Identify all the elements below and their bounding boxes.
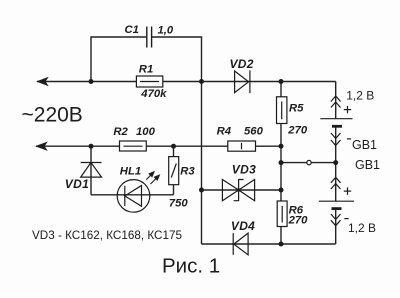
battery GB1 cell 1: positive plate	[320, 118, 352, 120]
arrow: mains bottom left	[36, 142, 47, 150]
wire: capacitor branch top y=37	[91, 37, 147, 82]
wire: top mains row y=81.5	[37, 81, 336, 83]
node A: top-left junction	[89, 79, 94, 84]
resistor R6	[277, 201, 287, 227]
wire: R3 stub	[173, 146, 175, 156]
node E: R3 top junction	[171, 144, 176, 149]
wire	[173, 185, 175, 195]
svg-text:VD1: VD1	[65, 177, 89, 191]
resistor R3	[169, 157, 179, 185]
diode VD4	[233, 233, 248, 255]
wire: battery mid-tap row y=162.6	[281, 162, 336, 164]
svg-text:R2: R2	[113, 126, 128, 138]
battery GB1 cell 2: positive plate	[319, 200, 354, 202]
label + (cell 1)	[344, 106, 351, 113]
resistor R2	[120, 141, 147, 151]
node I: VD3 left junction	[199, 188, 204, 193]
arrow: mains top left	[37, 77, 48, 85]
svg-text:R3: R3	[180, 166, 195, 178]
svg-text:C1: C1	[125, 24, 139, 36]
node J: VD3 right junction	[279, 188, 284, 193]
wire: second mains row y=146.2	[36, 145, 281, 147]
svg-text:1,2 В: 1,2 В	[346, 88, 374, 102]
wire: vertical x=201.5 from top row to bottom row	[201, 82, 203, 245]
wire: bottom row y=244	[202, 243, 336, 245]
node F: R4 right junction	[279, 144, 284, 149]
battery GB1 cell 1: contact chevrons up	[331, 96, 341, 108]
label + (cell 2)	[344, 187, 351, 194]
svg-text:HL1: HL1	[120, 166, 141, 178]
node H: mid-tap right junction	[333, 160, 338, 165]
svg-text:GB1: GB1	[352, 138, 377, 152]
resistor R4	[228, 141, 256, 151]
svg-text:VD3: VD3	[232, 163, 256, 177]
svg-text:R4: R4	[217, 126, 232, 138]
svg-text:560: 560	[244, 126, 264, 138]
battery GB1 cell 2: contact chevrons up	[331, 177, 341, 189]
svg-text:R1: R1	[139, 63, 153, 75]
wire	[335, 209, 337, 244]
svg-text:R5: R5	[289, 102, 304, 114]
label - (cell 1)	[347, 138, 351, 140]
resistor R5	[277, 97, 287, 124]
svg-text:750: 750	[169, 197, 189, 209]
wire: vertical x=281 (R5/R6 column)	[280, 82, 282, 97]
wire: VD1 branch x=91	[90, 146, 92, 195]
svg-text:270: 270	[288, 214, 309, 226]
wire: battery column x=335.7	[335, 82, 337, 119]
arrow: HL1 light arrow 1	[146, 172, 154, 180]
node G: mid-tap left junction	[279, 160, 284, 165]
wire	[280, 124, 282, 202]
svg-text:470k: 470k	[140, 88, 167, 100]
node: mid-tap connector circle	[307, 160, 311, 164]
node K: bottom junction	[279, 242, 284, 247]
battery GB1 cell 2: negative plate	[332, 207, 342, 210]
svg-text:1,2 В: 1,2 В	[348, 221, 376, 235]
svg-text:270: 270	[287, 125, 308, 137]
resistor R1	[136, 76, 162, 87]
battery GB1 cell 2: contact chevrons down	[331, 214, 341, 226]
LED HL1	[117, 180, 150, 213]
node: VD3 centre dot	[237, 188, 241, 192]
node C: R5 top junction	[279, 79, 284, 84]
wire	[280, 227, 282, 245]
wire: VD3 row y=190	[202, 189, 282, 191]
svg-text:Рис. 1: Рис. 1	[162, 255, 220, 278]
battery GB1 cell 1: contact chevrons down	[331, 133, 341, 146]
label - (cell 2)	[344, 218, 348, 220]
svg-text:VD4: VD4	[231, 219, 255, 233]
diode VD1	[81, 163, 102, 178]
zener VD3 (bidirectional)	[222, 180, 254, 201]
svg-text:VD2: VD2	[230, 57, 254, 71]
diode VD2	[235, 70, 250, 93]
svg-text:VD3 - КС162, КС168, КС175: VD3 - КС162, КС168, КС175	[32, 229, 182, 242]
arrow: HL1 light arrow 2	[150, 175, 159, 184]
svg-text:1,0: 1,0	[158, 25, 174, 37]
wire: HL1 row y=194.8	[91, 194, 174, 196]
svg-text:100: 100	[136, 126, 156, 138]
battery GB1 cell 1: negative plate	[332, 125, 342, 128]
wire	[335, 126, 337, 201]
node B: cap branch right junction	[199, 79, 204, 84]
svg-text:~220В: ~220В	[22, 104, 83, 127]
capacitor C1	[147, 27, 152, 48]
wire	[152, 37, 202, 82]
svg-text:GB1: GB1	[355, 158, 380, 172]
node D: VD1 top junction	[89, 144, 94, 149]
